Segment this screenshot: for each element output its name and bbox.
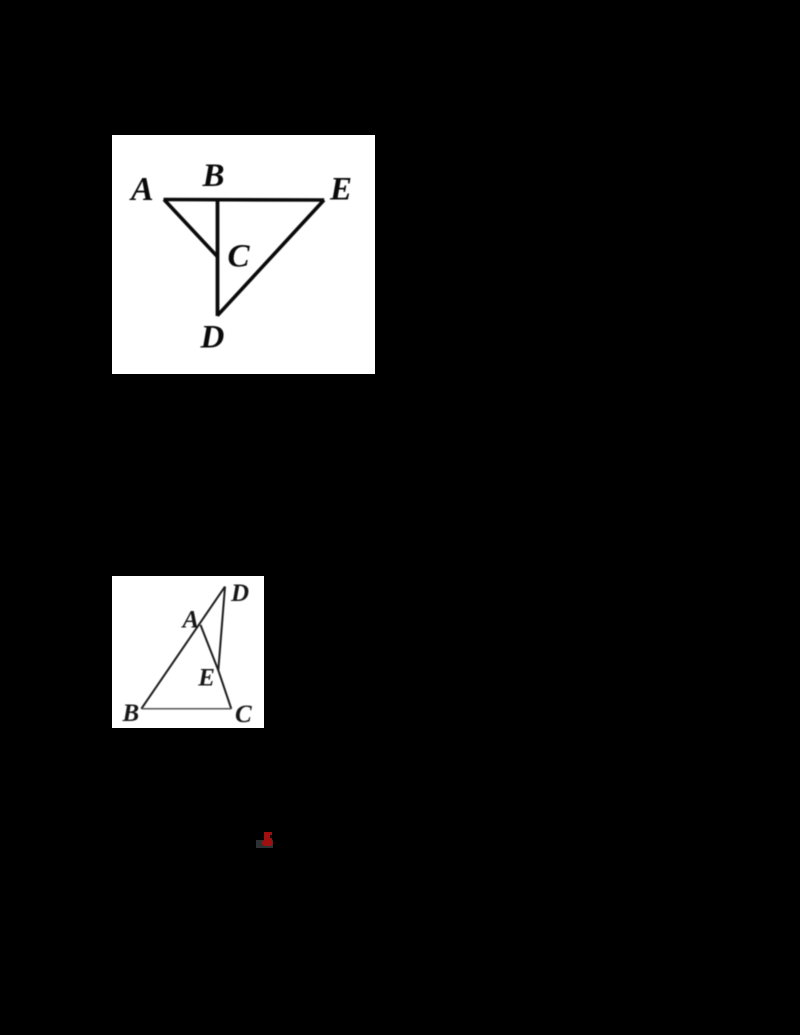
wire segment A-E (horizontal top line)	[164, 198, 325, 202]
svg-text:D: D	[230, 580, 249, 607]
svg-text:C: C	[228, 238, 251, 274]
wire segment A-E	[201, 625, 219, 670]
svg-text:A: A	[129, 171, 154, 208]
wire segment B-D (vertical line)	[216, 198, 220, 316]
wire segment E-C	[218, 670, 231, 709]
svg-text:B: B	[122, 700, 140, 727]
geometry figure 2 (triangle B C D with point A and E, white scanned image)	[112, 576, 264, 728]
svg-text:D: D	[200, 320, 225, 356]
svg-text:E: E	[329, 172, 352, 208]
wire segment A-C (slant)	[164, 200, 217, 257]
small red mark with dark grey base	[256, 840, 273, 849]
wire segment B-D	[141, 587, 225, 709]
svg-text:E: E	[197, 665, 215, 692]
geometry figure 1 (triangle A B E with cevians, white scanned image)	[112, 135, 375, 374]
svg-text:C: C	[235, 701, 252, 728]
wire segment D-E	[218, 587, 225, 671]
wire segment B-C (bottom, lighter)	[141, 708, 231, 710]
svg-text:B: B	[202, 158, 225, 194]
wire segment D-E (slant)	[217, 200, 324, 316]
svg-text:A: A	[181, 607, 200, 634]
